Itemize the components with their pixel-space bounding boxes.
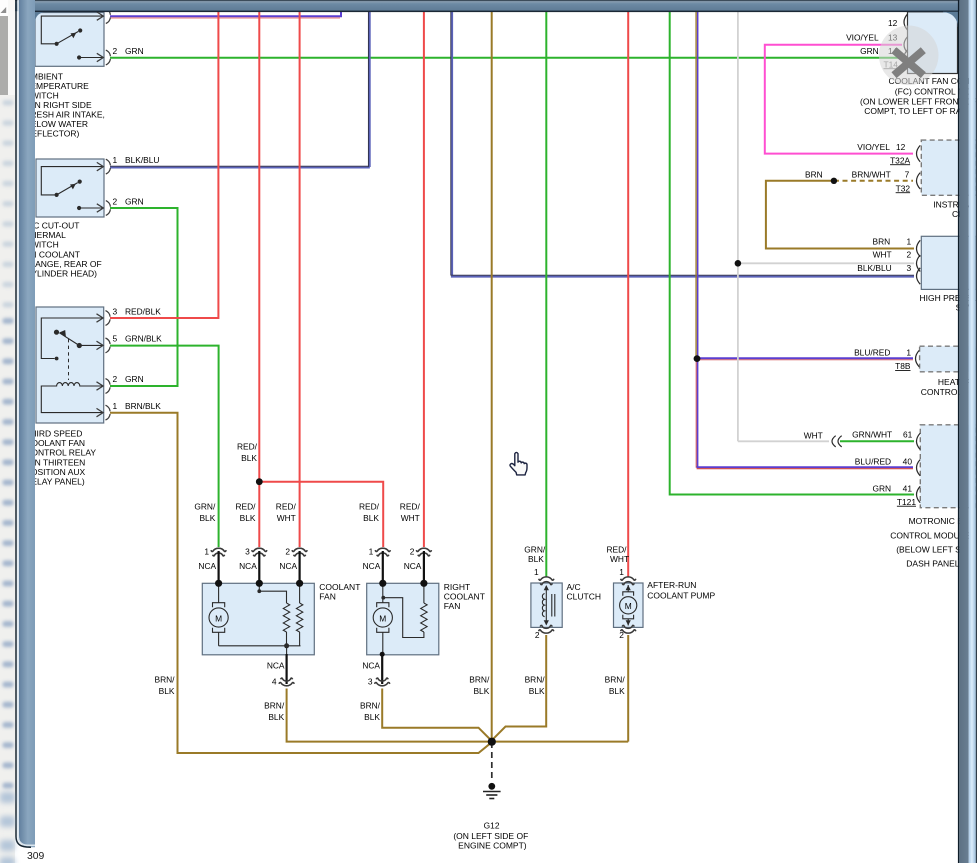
window frame top dark line: [33, 11, 958, 13]
svg-text:(ON RIGHT SIDE: (ON RIGHT SIDE: [25, 100, 92, 110]
svg-text:BRN/BLK: BRN/BLK: [125, 401, 161, 411]
svg-text:BLU/RED: BLU/RED: [855, 457, 891, 467]
svg-text:AFTER-RUN: AFTER-RUN: [647, 580, 696, 590]
svg-text:BLK: BLK: [528, 554, 544, 564]
svg-text:RIGHT: RIGHT: [444, 582, 470, 592]
svg-text:BLK: BLK: [159, 686, 175, 696]
svg-text:BLK: BLK: [529, 686, 545, 696]
svg-text:(ON LEFT SIDE OF: (ON LEFT SIDE OF: [453, 831, 528, 841]
wire RED/WHT vertical to after-run pump pin1: [627, 11, 629, 576]
svg-text:GRN: GRN: [125, 46, 144, 56]
svg-text:A/C: A/C: [567, 582, 581, 592]
wire BRN/BLK after-run pump pin2 to junction: [627, 635, 629, 742]
wire GRN/BLK vertical to A/C clutch pin1: [545, 11, 547, 576]
window frame right bars: [958, 0, 959, 863]
svg-text:T32: T32: [896, 183, 911, 193]
ambient temperature switch box: [35, 13, 104, 67]
svg-text:M: M: [625, 601, 632, 611]
svg-text:2: 2: [410, 547, 415, 557]
inline connector arcs on WHT/GRN-WHT wire: [832, 436, 836, 447]
svg-text:CYLINDER HEAD): CYLINDER HEAD): [25, 268, 97, 278]
sidebar thumbnail blobs: [0, 100, 15, 868]
svg-text:1: 1: [534, 567, 539, 577]
svg-text:1: 1: [619, 567, 624, 577]
svg-text:BLK: BLK: [609, 686, 625, 696]
svg-text:1: 1: [907, 237, 912, 247]
wire GRN/BLK relay pin5 to coolant fan pin1: [110, 346, 219, 547]
instrument cluster box (dashed): [921, 140, 976, 195]
pin arrow/arc relay: [97, 405, 111, 420]
pin arrow/arc relay: [97, 379, 111, 394]
svg-text:1: 1: [369, 547, 374, 557]
svg-text:FAN: FAN: [319, 592, 336, 602]
svg-text:12: 12: [896, 142, 906, 152]
A/C clutch internals: [542, 586, 554, 625]
svg-text:2: 2: [113, 46, 118, 56]
svg-text:T121: T121: [897, 497, 916, 507]
svg-text:2: 2: [619, 630, 624, 640]
svg-text:NCA: NCA: [267, 661, 285, 671]
svg-text:VIO/YEL: VIO/YEL: [846, 33, 879, 43]
wire GRN/WHT to motronic pin61: [840, 440, 914, 442]
svg-text:BRN/: BRN/: [360, 700, 381, 710]
svg-text:GRN: GRN: [860, 46, 879, 56]
wire RED/BLK vertical to coolant fan pin3: [258, 11, 260, 547]
wire BLU/RED box1 pin1: [110, 11, 341, 16]
coolant fan motor M: [209, 583, 301, 646]
right coolant fan motor M: [373, 583, 392, 654]
svg-text:BLK/BLU: BLK/BLU: [857, 263, 891, 273]
content top-left rounded corner patch: [35, 12, 44, 23]
svg-text:BLK: BLK: [364, 712, 380, 722]
svg-text:FAN: FAN: [444, 601, 461, 611]
svg-text:BRN/: BRN/: [525, 674, 546, 684]
svg-text:1: 1: [906, 347, 911, 357]
svg-text:ENGINE COMPT): ENGINE COMPT): [458, 841, 527, 851]
svg-text:WHT: WHT: [873, 249, 892, 259]
wire RED/BLK branch to right fan pin1: [259, 482, 383, 547]
right fan pin3 connector: [381, 654, 383, 684]
coolant fan pin connectors top: [211, 548, 226, 556]
A/C clutch pin connectors: [539, 577, 554, 585]
window frame left bar: [19, 0, 35, 847]
pin arrow/arc relay: [97, 338, 111, 353]
svg-text:FLANGE, REAR OF: FLANGE, REAR OF: [25, 259, 102, 269]
svg-text:RED/: RED/: [400, 502, 421, 512]
svg-text:WHT: WHT: [401, 513, 420, 523]
high pressure pin arcs 1,2,3: [917, 240, 921, 256]
pin arrow/arc box1: [97, 9, 111, 24]
svg-text:COOLANT: COOLANT: [319, 582, 360, 592]
svg-text:61: 61: [903, 430, 913, 440]
FC module pin arcs 12,13,14: [904, 14, 908, 30]
svg-text:3: 3: [368, 677, 373, 687]
svg-text:BLK: BLK: [268, 712, 284, 722]
svg-text:BRN/: BRN/: [605, 674, 626, 684]
right coolant fan box: [367, 583, 439, 655]
svg-text:BLK: BLK: [240, 513, 256, 523]
svg-text:VIO/YEL: VIO/YEL: [857, 142, 890, 152]
svg-text:2: 2: [907, 249, 912, 259]
svg-text:M: M: [379, 613, 386, 623]
wire BRN/BLK vertical to ground junction: [491, 11, 493, 742]
T8B pin arc: [916, 350, 920, 366]
svg-text:GRN/: GRN/: [194, 502, 216, 512]
svg-text:GRN: GRN: [125, 196, 144, 206]
wire WHT to inline connector: [738, 440, 829, 442]
svg-text:RED/: RED/: [235, 502, 256, 512]
svg-text:DASH PANEL): DASH PANEL): [906, 558, 962, 568]
svg-text:3: 3: [113, 306, 118, 316]
svg-text:COMPT, TO LEFT OF RAD: COMPT, TO LEFT OF RAD: [864, 106, 967, 116]
content top-right rounded corner patch: [943, 12, 958, 27]
svg-text:NCA: NCA: [363, 561, 381, 571]
svg-text:NCA: NCA: [362, 661, 380, 671]
svg-text:BLU/RED: BLU/RED: [854, 347, 890, 357]
wire BRN/BLK A/C clutch pin2 to junction: [492, 635, 546, 740]
hand cursor: [510, 452, 527, 474]
svg-text:G12: G12: [484, 821, 500, 831]
wire BLK/BLU to high pressure switch pin3: [450, 11, 452, 275]
svg-text:WHT: WHT: [610, 554, 629, 564]
pin arrow/arc box2: [97, 159, 111, 174]
svg-text:NCA: NCA: [404, 561, 422, 571]
wire BLU/RED to heater controller T8B: [697, 357, 913, 359]
wire RED/BLK relay pin3: [110, 11, 218, 318]
svg-text:BRN/: BRN/: [154, 674, 175, 684]
after-run pump pin connectors: [621, 577, 636, 585]
motronic control module box (dashed): [920, 425, 976, 508]
svg-text:2: 2: [535, 630, 540, 640]
svg-text:4: 4: [272, 677, 277, 687]
svg-text:BLK: BLK: [241, 453, 257, 463]
svg-text:COOLANT: COOLANT: [444, 592, 485, 602]
svg-text:RED/: RED/: [237, 441, 258, 451]
svg-text:40: 40: [903, 457, 913, 467]
wire to ground G12 (dashed): [491, 742, 493, 781]
svg-text:GRN/: GRN/: [524, 544, 546, 554]
wire GRN box2 pin2 to relay pin2: [110, 208, 178, 386]
svg-text:309: 309: [27, 851, 45, 862]
wire WHT to high pressure pin2: [738, 262, 914, 264]
thermal switch internals: [41, 167, 103, 208]
ambient temp switch internals: [41, 16, 103, 57]
svg-text:GRN/WHT: GRN/WHT: [852, 430, 892, 440]
wire BRN/BLK right fan pin3 to junction: [382, 689, 491, 741]
coolant fan resistors: [259, 583, 303, 654]
svg-text:M: M: [215, 613, 222, 623]
wire BLK/BLU box2 pin1: [110, 165, 370, 167]
wire GRN to motronic pin41: [670, 11, 914, 494]
wire VIO/YEL FC pin13 to cluster pin12: [765, 45, 913, 154]
svg-text:T32A: T32A: [890, 155, 910, 165]
left sidebar background: [0, 0, 15, 863]
pin arrow/arc box1: [97, 50, 111, 65]
coolant fan box: [202, 583, 314, 655]
svg-text:1: 1: [204, 547, 209, 557]
third speed coolant fan control relay box: [36, 307, 104, 423]
svg-text:WHT: WHT: [277, 513, 296, 523]
svg-text:COOLANT PUMP: COOLANT PUMP: [647, 591, 715, 601]
right coolant fan resistor: [385, 583, 427, 637]
svg-text:GRN: GRN: [125, 374, 144, 384]
svg-text:3: 3: [907, 263, 912, 273]
svg-text:FRESH AIR INTAKE,: FRESH AIR INTAKE,: [25, 110, 105, 120]
svg-text:2: 2: [113, 374, 118, 384]
svg-text:NCA: NCA: [198, 561, 216, 571]
svg-text:WHT: WHT: [804, 431, 823, 441]
high pressure switch box: [921, 236, 976, 289]
svg-text:5: 5: [113, 334, 118, 344]
svg-text:RED/: RED/: [359, 502, 380, 512]
svg-text:GRN: GRN: [872, 483, 891, 493]
svg-text:RED/BLK: RED/BLK: [125, 306, 161, 316]
after-run pump motor: [620, 585, 637, 626]
wire RED/WHT vertical to coolant fan pin2: [299, 11, 301, 547]
wire BRN/BLK relay pin1 to ground junction: [110, 413, 492, 753]
A/C clutch box: [531, 583, 562, 627]
svg-text:BLK: BLK: [363, 513, 379, 523]
motronic pin arcs 61,40,41: [917, 433, 921, 449]
svg-text:BRN/WHT: BRN/WHT: [852, 170, 891, 180]
svg-text:1: 1: [113, 155, 118, 165]
svg-text:BRN: BRN: [805, 170, 823, 180]
svg-text:CLUTCH: CLUTCH: [567, 592, 601, 602]
svg-text:41: 41: [903, 483, 913, 493]
wire WHT vertical: [737, 11, 739, 441]
coolant fan control module box: [908, 12, 958, 74]
coolant fan pin4 connector: [286, 654, 288, 684]
svg-text:RED/: RED/: [607, 544, 628, 554]
svg-text:T8B: T8B: [895, 361, 911, 371]
svg-text:BLK: BLK: [473, 686, 489, 696]
ground G12 symbol: [488, 783, 495, 790]
svg-text:1: 1: [113, 401, 118, 411]
svg-text:NCA: NCA: [279, 561, 297, 571]
wire GRN box1 pin2 to FC pin14: [110, 57, 903, 59]
svg-text:2: 2: [113, 196, 118, 206]
sidebar scroll arrow: [1, 7, 7, 13]
svg-text:7: 7: [905, 170, 910, 180]
pin arrow/arc relay: [97, 311, 111, 326]
A/C cut-out thermal switch box: [36, 159, 104, 217]
svg-text:BRN: BRN: [873, 237, 891, 247]
svg-text:BRN/: BRN/: [264, 700, 285, 710]
svg-text:12: 12: [888, 18, 898, 28]
svg-text:BLK: BLK: [199, 513, 215, 523]
svg-text:(BELOW LEFT SI: (BELOW LEFT SI: [896, 544, 963, 554]
pin arrow/arc box2: [97, 201, 111, 216]
heater controller box (dashed): [920, 346, 977, 372]
wire BRN/BLK coolant fan pin4 to junction: [287, 689, 629, 742]
close X button: [879, 26, 939, 86]
wire RED/WHT vertical to right fan pin2: [423, 11, 425, 547]
svg-text:BRN/: BRN/: [469, 674, 490, 684]
svg-text:GRN/BLK: GRN/BLK: [125, 334, 162, 344]
wire BRN to cluster pin7 and HP pin1: [766, 181, 914, 249]
svg-text:3: 3: [245, 547, 250, 557]
relay internals: [41, 318, 103, 413]
svg-text:BLK/BLU: BLK/BLU: [125, 155, 159, 165]
wire BLU/RED down to motronic pin40: [695, 359, 697, 468]
cluster pin arcs 12, 7: [917, 145, 921, 161]
wire pair BRN + BLU/RED verticals: [695, 11, 697, 358]
svg-text:CONTROL RELAY: CONTROL RELAY: [25, 448, 96, 458]
svg-text:RED/: RED/: [276, 502, 297, 512]
after-run coolant pump box: [614, 583, 644, 627]
svg-text:NCA: NCA: [239, 561, 257, 571]
svg-text:2: 2: [285, 547, 290, 557]
